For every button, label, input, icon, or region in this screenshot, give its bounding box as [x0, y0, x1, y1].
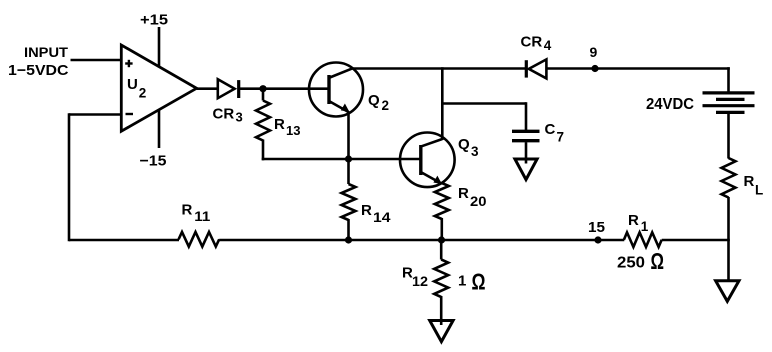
resistor R1 — [624, 232, 662, 247]
wire — [262, 89, 265, 101]
wire — [219, 239, 624, 242]
svg-text:Q: Q — [458, 136, 470, 153]
node 15 — [594, 236, 601, 243]
ground — [430, 321, 453, 342]
wire — [727, 67, 730, 91]
svg-text:R: R — [628, 212, 639, 229]
node C — [345, 236, 352, 243]
node D — [438, 236, 445, 243]
svg-text:R: R — [182, 201, 193, 218]
svg-text:4: 4 — [544, 38, 552, 53]
resistor R12 — [440, 239, 443, 260]
wire — [441, 67, 444, 140]
svg-text:3: 3 — [236, 110, 243, 125]
svg-text:3: 3 — [471, 144, 479, 159]
svg-text:−15: −15 — [140, 152, 167, 169]
wire — [69, 113, 123, 116]
resistor R13 — [256, 101, 270, 141]
transistor Q2 — [309, 63, 363, 117]
svg-text:R: R — [744, 173, 755, 190]
svg-text:U: U — [127, 76, 138, 93]
svg-text:7: 7 — [557, 130, 565, 145]
wire — [239, 87, 329, 90]
wire — [262, 140, 265, 161]
node A — [259, 85, 266, 92]
capacitor C7 — [512, 130, 540, 133]
svg-text:INPUT: INPUT — [24, 45, 69, 60]
svg-text:12: 12 — [412, 274, 428, 289]
wire — [546, 67, 729, 70]
svg-text:24VDC: 24VDC — [646, 96, 694, 113]
svg-text:13: 13 — [286, 123, 300, 138]
op-amp U2 — [121, 45, 196, 131]
resistor RL — [722, 158, 736, 198]
wire — [197, 87, 218, 90]
svg-text:R: R — [458, 185, 469, 202]
wire — [727, 114, 730, 159]
svg-text:14: 14 — [373, 210, 391, 225]
svg-text:15: 15 — [588, 219, 605, 236]
svg-text:C: C — [545, 121, 556, 138]
svg-text:1−5VDC: 1−5VDC — [8, 62, 69, 79]
svg-text:2: 2 — [382, 98, 390, 113]
svg-text:2: 2 — [139, 86, 147, 101]
svg-text:Ω: Ω — [651, 248, 665, 274]
svg-text:CR: CR — [213, 105, 235, 122]
battery 24VDC — [703, 91, 755, 94]
svg-text:250: 250 — [617, 255, 645, 272]
wire — [262, 158, 421, 161]
wire — [158, 27, 161, 68]
svg-text:9: 9 — [590, 44, 598, 60]
svg-text:+15: +15 — [140, 12, 168, 29]
diode CR4 — [525, 60, 528, 77]
resistor R20 — [435, 183, 449, 219]
svg-text:R: R — [361, 202, 372, 219]
wire — [68, 113, 71, 241]
ground — [515, 159, 537, 180]
node 9 — [591, 65, 598, 72]
diode CR3 — [218, 79, 235, 98]
svg-text:R: R — [274, 116, 285, 133]
wire — [525, 102, 528, 130]
wire — [71, 59, 123, 62]
resistor R11 — [179, 232, 220, 247]
resistor R14 — [347, 159, 350, 184]
wire — [727, 197, 730, 285]
wire — [69, 239, 179, 242]
transistor Q3 — [400, 133, 455, 188]
svg-text:20: 20 — [470, 194, 487, 209]
wire — [347, 112, 350, 160]
svg-text:CR: CR — [521, 33, 543, 50]
ground — [716, 281, 739, 302]
svg-text:Q: Q — [368, 92, 380, 109]
wire — [662, 239, 730, 242]
svg-text:11: 11 — [194, 209, 211, 224]
wire — [158, 110, 161, 149]
svg-text:1: 1 — [458, 273, 466, 290]
svg-text:L: L — [755, 183, 763, 198]
node B — [345, 155, 352, 162]
svg-text:1: 1 — [641, 219, 649, 234]
wire — [352, 67, 526, 70]
wire — [441, 102, 526, 105]
svg-text:Ω: Ω — [472, 269, 486, 295]
